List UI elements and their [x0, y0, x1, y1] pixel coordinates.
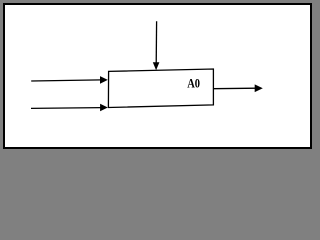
page white area with black border frame: [4, 4, 311, 148]
output arrow head: [255, 84, 263, 92]
control arrow head: [153, 62, 160, 70]
input arrow 2 wire: [31, 107, 102, 110]
output arrow wire: [213, 87, 256, 90]
input arrow 1 wire: [31, 80, 101, 81]
input arrow 2 head: [100, 104, 108, 112]
control arrow (top, vertical) wire: [155, 21, 157, 64]
IDEF0 context diagram: box A0 with input/control/output arrows: [0, 0, 313, 150]
input arrow 1 head: [100, 76, 108, 84]
svg-text:A0: A0: [187, 77, 200, 91]
box A0: [108, 69, 213, 108]
outer gray frame background: [0, 0, 313, 150]
